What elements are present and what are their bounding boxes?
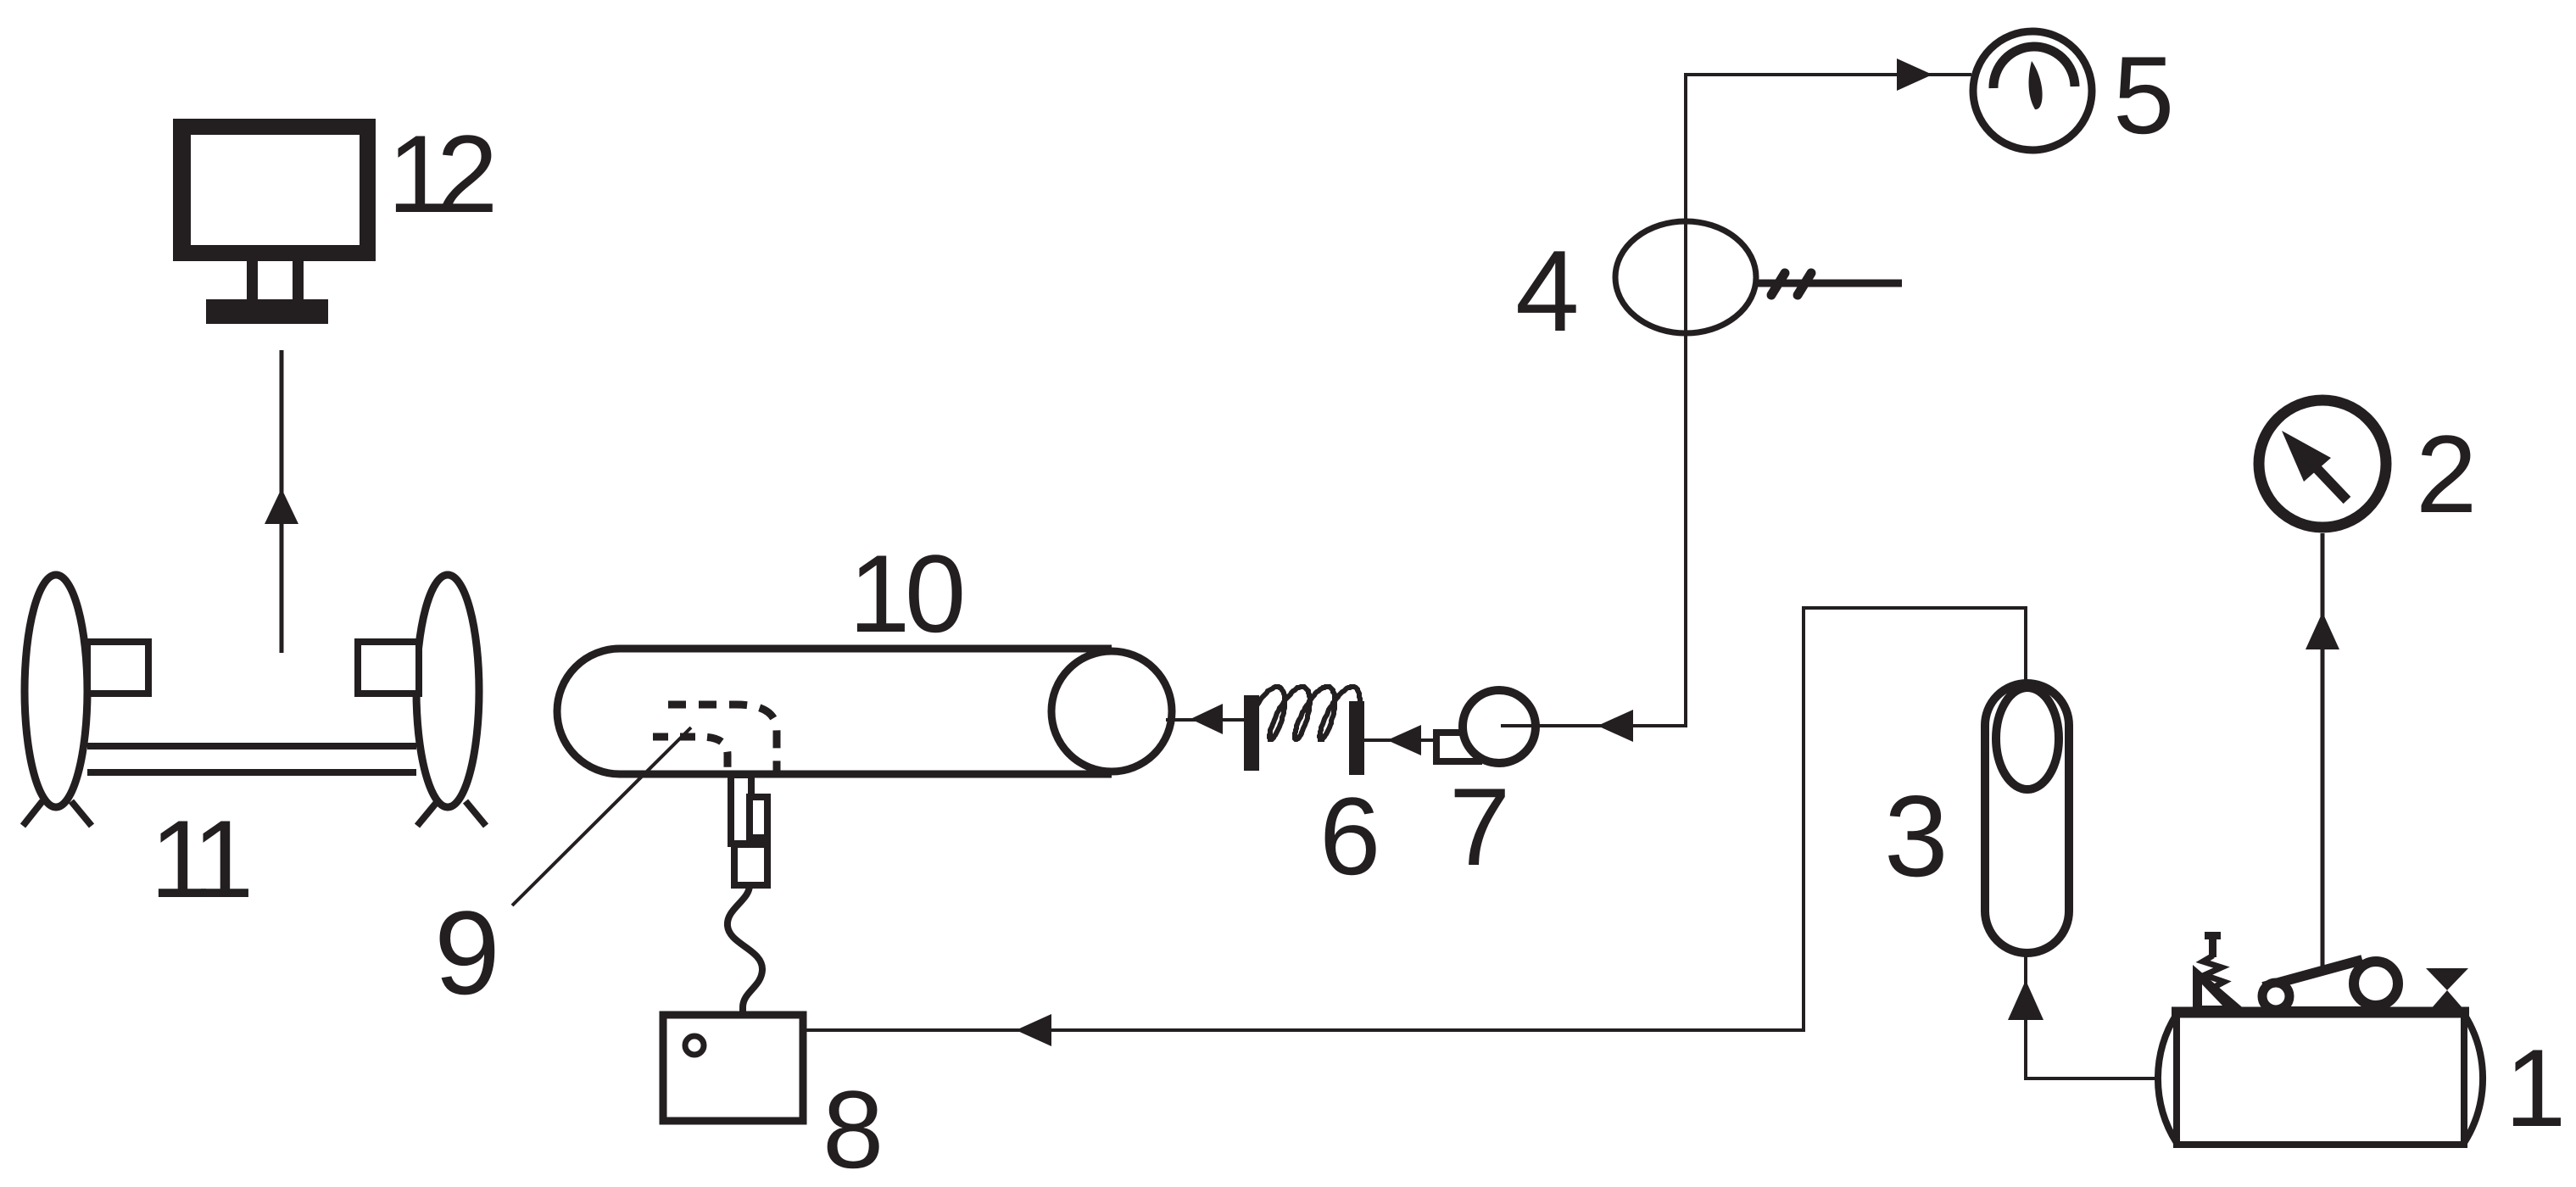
dashed probe elbow (outer) (668, 705, 777, 773)
svg-text:0: 0 (905, 532, 966, 655)
outlet valve on tank (2426, 968, 2468, 990)
wire 7 to 6 (1364, 738, 1436, 742)
pump tank 1 (2158, 1014, 2177, 1143)
gauge 5 (1973, 31, 2092, 150)
gauge 2 (2259, 400, 2386, 527)
svg-text:1: 1 (2505, 1026, 2566, 1150)
monitor 12 (computer) (173, 119, 376, 324)
roller device 11 (25, 575, 87, 807)
belt drive pump on tank (2263, 960, 2362, 987)
svg-text:3: 3 (1884, 772, 1949, 900)
wire 7 to 4 to 5 (1501, 75, 1971, 726)
valve 7 (1463, 690, 1536, 763)
svg-text:9: 9 (434, 886, 500, 1019)
svg-text:1: 1 (192, 797, 254, 921)
wire tank 1 to 3 (2026, 953, 2158, 1078)
instrument box 8 (663, 1015, 803, 1121)
svg-text:6: 6 (1319, 774, 1380, 898)
dashed probe elbow (inner) (653, 737, 728, 773)
shock tube 10 (557, 649, 1112, 774)
wire 6 to tube 10 (1166, 718, 1244, 722)
wire arrow 11 to 12 (280, 350, 284, 653)
valve fitting of 7 (1436, 733, 1479, 761)
svg-text:2: 2 (2416, 412, 2477, 536)
wire tank 1 to 2 (2321, 533, 2325, 972)
wire tank 1 to box 8 (803, 608, 2026, 1030)
svg-text:8: 8 (822, 1067, 884, 1187)
svg-text:5: 5 (2113, 33, 2174, 157)
transducer fitting under tube (731, 775, 751, 844)
svg-text:4: 4 (1515, 226, 1580, 355)
leader line 9 (512, 727, 691, 906)
damper coil 6 (1244, 695, 1259, 771)
accumulator 3 (1985, 683, 2069, 953)
svg-text:2: 2 (437, 112, 498, 236)
relief valve on tank (2193, 932, 2246, 1011)
svg-text:7: 7 (1449, 765, 1510, 889)
pump 4 (1615, 221, 1756, 333)
svg-text:1: 1 (849, 532, 910, 655)
drive shaft of 4 (1756, 280, 1902, 287)
signal cable (728, 885, 762, 1015)
